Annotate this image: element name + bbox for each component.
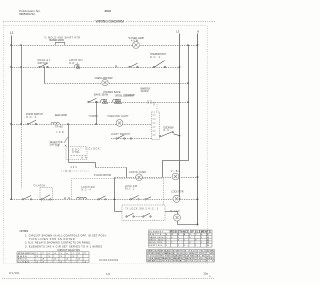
wire eoc drop <box>95 163 97 168</box>
bus aux vertical <box>163 46 189 178</box>
svg-text:UNLESS: UNLESS <box>161 261 172 263</box>
right upper table texts <box>149 231 164 247</box>
switch S7 <box>22 196 31 201</box>
wire plock right to lamp <box>165 212 178 215</box>
svg-text:N.C. 2: N.C. 2 <box>150 56 161 59</box>
svg-text:ELEC CONN: ELEC CONN <box>55 114 67 117</box>
svg-text:1: 1 <box>166 242 167 244</box>
bus L1 <box>11 36 13 200</box>
lamp 2-BL <box>172 173 179 180</box>
wire elbow x126 <box>126 168 128 178</box>
lamp oven light <box>133 42 140 49</box>
svg-text:*2 MOM: *2 MOM <box>89 115 98 118</box>
svg-text:48: 48 <box>207 242 209 244</box>
svg-text:1: 1 <box>195 245 196 247</box>
svg-text:5995381742: 5995381742 <box>19 12 35 16</box>
junction dot rung7b N <box>197 176 199 178</box>
svg-text:X: X <box>43 261 45 263</box>
svg-text:L1: L1 <box>10 31 14 35</box>
svg-text:X: X <box>79 259 81 261</box>
svg-text:N.C.: N.C. <box>164 129 171 132</box>
svg-text:2. N.O. RELAYS SHOWING CONTACT: 2. N.O. RELAYS SHOWING CONTACTS ON PANEL <box>25 242 91 245</box>
switch S6 <box>116 135 132 140</box>
frame right dotted border <box>207 26 209 264</box>
svg-text:LOCK MTR: LOCK MTR <box>172 192 184 194</box>
wire lamp to N <box>178 221 198 225</box>
svg-text:MODE SWITCH: MODE SWITCH <box>18 253 34 255</box>
wire rung5 <box>12 124 152 126</box>
svg-text:HEATER 1200W: HEATER 1200W <box>49 39 65 42</box>
svg-text:600 VOLT: 600 VOLT <box>185 261 196 263</box>
svg-text:X: X <box>43 259 45 261</box>
label lock sw rly <box>125 186 138 191</box>
svg-text:LOW W. OVEN: LOW W. OVEN <box>129 171 146 174</box>
ticks y171 <box>66 170 70 173</box>
x marks rung9 <box>64 197 70 199</box>
svg-text:45924: 45924 <box>104 9 111 13</box>
fuse F1 bump <box>55 42 65 45</box>
svg-text:3. ELEMENTS 240 V CIR SET SERI: 3. ELEMENTS 240 V CIR SET SERIES TO A-1 … <box>25 245 102 248</box>
table wire code (right lower) <box>147 249 215 262</box>
wire aux dotted y171 <box>61 170 89 172</box>
switch S2 <box>129 63 138 68</box>
switch S8 in box <box>41 195 51 200</box>
label mold and skirt <box>44 37 80 43</box>
table switch chart <box>17 252 89 263</box>
wire x21 lower <box>21 125 23 188</box>
svg-text:P 400: P 400 <box>171 211 181 213</box>
svg-text:1: 1 <box>184 240 185 242</box>
component box lock switch (dashed) <box>40 188 53 200</box>
svg-text:12a: 12a <box>204 271 209 275</box>
switch on dropper x68 <box>64 137 68 146</box>
svg-text:SKIRT 600: SKIRT 600 <box>149 245 163 247</box>
svg-text:ELEMENT: ELEMENT <box>149 231 164 233</box>
wire rung1 <box>12 45 198 47</box>
svg-text:*3 LOCK SW 2 N.C. 3: *3 LOCK SW 2 N.C. 3 <box>125 208 159 210</box>
svg-text:OVEN IND. LIGHT: OVEN IND. LIGHT <box>108 115 130 118</box>
lamp oven indicator <box>116 120 123 127</box>
lamp oven light 2 <box>102 79 108 85</box>
door switch to L3 <box>160 132 180 137</box>
switch S1 <box>39 63 48 68</box>
svg-text:4: 4 <box>171 237 172 239</box>
component box plock (dashed) <box>122 205 165 221</box>
switch S9 <box>130 196 151 201</box>
svg-text:X: X <box>61 261 63 263</box>
header publication text <box>19 9 41 16</box>
svg-text:9: 9 <box>189 237 190 239</box>
svg-text:SWITCH: SWITCH <box>38 62 48 65</box>
svg-text:X: X <box>55 259 57 261</box>
svg-text:RLY 2: RLY 2 <box>125 188 135 190</box>
wire dashed drop to box <box>156 102 158 112</box>
svg-text:8: 8 <box>195 240 196 242</box>
svg-text:TION LINES SHO AS NOTED: TION LINES SHO AS NOTED <box>29 238 75 241</box>
switch S4 <box>88 98 97 103</box>
label door shelf switch <box>26 113 43 119</box>
wire rung2 <box>12 67 180 69</box>
svg-text:X: X <box>49 256 51 258</box>
bus L3 <box>179 34 181 199</box>
svg-text:1: 1 <box>201 242 202 244</box>
svg-text:NOTES:: NOTES: <box>20 229 29 233</box>
svg-text:N.O. 1: N.O. 1 <box>69 62 79 65</box>
bus vertical x114.5 <box>114 178 116 212</box>
label thermostat <box>150 53 167 59</box>
junction dots rung4 <box>95 101 189 103</box>
svg-text:105 C: 105 C <box>197 261 204 263</box>
svg-text:*2: *2 <box>81 149 88 151</box>
wire rung7 <box>96 167 127 169</box>
junction dots rung9 <box>10 198 198 200</box>
heating element broil zigzag <box>112 99 122 103</box>
frame bottom dotted border <box>4 263 208 265</box>
svg-text:4: 4 <box>189 242 190 244</box>
svg-text:*3 LATCH: *3 LATCH <box>33 185 45 188</box>
svg-text:NOTED ALL: NOTED ALL <box>173 260 184 263</box>
connector TR/BK coil <box>51 122 59 124</box>
svg-text:1: 1 <box>166 245 167 247</box>
bus N <box>197 34 199 225</box>
label relay <box>141 87 151 93</box>
svg-text:X: X <box>61 256 63 258</box>
eoc text block <box>72 149 100 160</box>
svg-text:T: T <box>195 234 197 236</box>
svg-text:N.C. 4: N.C. 4 <box>82 189 92 191</box>
label latch relay <box>69 59 83 65</box>
svg-text:BAKE: BAKE <box>18 255 28 258</box>
wire dropper x44 <box>44 68 46 84</box>
frame left dotted border <box>3 23 5 264</box>
svg-text:L3: L3 <box>176 29 180 33</box>
svg-text:2: 2 <box>166 237 167 239</box>
label latch sw <box>82 186 96 192</box>
svg-text:CLEAN: CLEAN <box>18 260 29 263</box>
heating element on rung2 zigzag <box>74 65 80 68</box>
svg-text:3400W: 3400W <box>141 90 150 93</box>
svg-text:b: b <box>210 276 212 278</box>
svg-text:4: 4 <box>184 245 185 247</box>
svg-text:BAKE 350W: BAKE 350W <box>94 93 109 96</box>
svg-text:N.O. 3: N.O. 3 <box>26 116 37 119</box>
svg-text:X: X <box>73 256 75 258</box>
svg-text:3: 3 <box>178 240 179 242</box>
connector ticks rung4 <box>148 100 154 106</box>
wire dropper x68 <box>68 125 70 163</box>
left table cell marks <box>37 253 87 263</box>
svg-text:2: 2 <box>178 245 179 247</box>
junction dots rung2 <box>10 66 180 68</box>
svg-text:8A: 8A <box>82 156 87 159</box>
wire rung3 <box>45 83 189 85</box>
heating element bake zigzag <box>100 99 108 103</box>
motor lock <box>173 195 180 202</box>
junction dot rung3 <box>187 82 189 84</box>
svg-text:2: 2 <box>201 237 202 239</box>
svg-text:LIGHT SWITCH: LIGHT SWITCH <box>111 133 130 136</box>
wire rung7b <box>115 177 198 179</box>
svg-text:X: X <box>37 256 39 258</box>
svg-text:LKD: LKD <box>57 132 64 134</box>
svg-text:CTRL: CTRL <box>72 152 80 154</box>
svg-text:MIN: MIN <box>206 261 214 263</box>
svg-text:1. CIRCUIT SHOWN IN ALL CONTRO: 1. CIRCUIT SHOWN IN ALL CONTROLS OFF, IN… <box>25 234 107 237</box>
svg-text:316000369: 316000369 <box>99 258 118 262</box>
switch S3 <box>153 61 165 68</box>
wire rung6 <box>111 138 152 140</box>
terminal ticks in box <box>153 115 156 135</box>
wire rung4 <box>88 102 189 104</box>
svg-text:96: 96 <box>207 245 209 247</box>
wire vertical x96 <box>96 103 98 125</box>
svg-text:X: X <box>85 261 87 263</box>
svg-text:BAKE 2600: BAKE 2600 <box>149 236 164 239</box>
left table texts <box>18 253 34 263</box>
lamp low watt <box>136 174 143 181</box>
title dotted leader left <box>3 21 94 23</box>
wire plock left <box>115 211 123 213</box>
table resistance chart <box>149 230 212 247</box>
svg-text:2-BL: 2-BL <box>171 170 181 173</box>
footer rule <box>2 278 214 280</box>
right lower table texts <box>147 250 214 263</box>
junction dots rung5 <box>10 123 97 125</box>
junction dots rung1 <box>10 44 198 46</box>
label selector switch <box>50 142 63 147</box>
svg-text:2: 2 <box>171 242 172 244</box>
x mark rung2 <box>115 65 117 67</box>
svg-text:01/00: 01/00 <box>9 271 19 275</box>
junction dot L3 door switch <box>179 135 181 137</box>
svg-text:ARE AWG 14: ARE AWG 14 <box>147 260 160 263</box>
svg-text:BROIL ELEMENT: BROIL ELEMENT <box>116 94 136 97</box>
svg-text:CLOCK: CLOCK <box>89 149 100 151</box>
svg-text:TB: TB <box>55 146 59 148</box>
wire vertical x21 <box>21 46 23 125</box>
coil bumps <box>76 197 86 199</box>
label door switch <box>164 127 175 133</box>
svg-text:54: 54 <box>207 237 209 239</box>
label switch S1 <box>38 59 52 65</box>
switch S5 <box>27 120 36 125</box>
lamp P400 <box>174 214 181 221</box>
svg-text:X: X <box>37 261 39 263</box>
title dotted leader right <box>126 21 215 23</box>
svg-text:MOLD 1200: MOLD 1200 <box>149 242 163 244</box>
switch contacts mid rung9 <box>98 196 106 200</box>
svg-text:TR-BK: TR-BK <box>55 126 63 129</box>
svg-text:403: 403 <box>71 167 78 169</box>
svg-text:N: N <box>197 29 199 33</box>
junction dot N bottom <box>197 224 199 226</box>
switch S10 in plock box <box>126 213 151 217</box>
svg-text:WIRING DIAGRAM: WIRING DIAGRAM <box>96 20 125 24</box>
svg-text:10: 10 <box>106 272 110 276</box>
svg-text:X: X <box>67 259 69 261</box>
svg-text:P LOCK MOTOR: P LOCK MOTOR <box>94 175 111 177</box>
component box latch assembly (dashed) <box>152 112 160 140</box>
dash row eoc <box>71 154 87 156</box>
component box EOC (dashed) <box>66 147 87 160</box>
wire rung9 <box>12 199 198 201</box>
svg-text:BROIL: BROIL <box>18 259 29 261</box>
component box lock assembly (big dashed) <box>72 179 164 206</box>
svg-text:1: 1 <box>178 237 179 239</box>
header faint rule <box>4 25 207 27</box>
wire eoc bottom <box>69 162 96 164</box>
